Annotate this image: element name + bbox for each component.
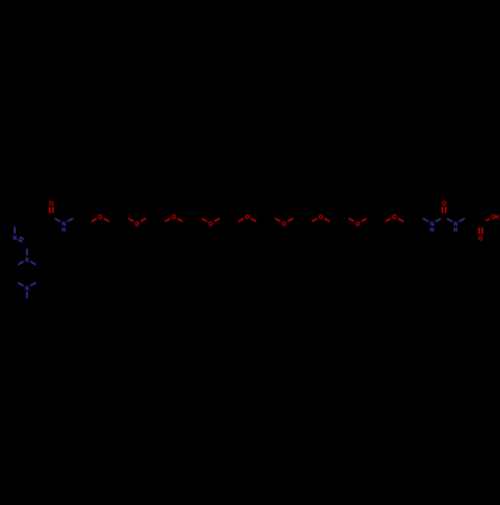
svg-text:OH: OH — [491, 214, 499, 221]
bond N1-C6 half (blue) — [14, 227, 16, 233]
bond Npip2-C5p half — [18, 283, 24, 286]
bond C=O urea double half (red) line a — [441, 207, 443, 213]
svg-text:O: O — [355, 221, 360, 228]
bond C=O amide double half (red) line a — [49, 207, 51, 213]
bond C=O acid double half (red) line b — [478, 227, 480, 234]
bond O2-CH2 right half (red) — [141, 218, 147, 221]
bond O4-CH2 left half (red) — [202, 218, 208, 221]
bond C-OH half (red) — [486, 219, 490, 221]
bond O1-CH2 right half (red) — [104, 218, 110, 221]
bond C=O urea double half (red) line b — [445, 207, 447, 213]
bond O9-CH2 left half (red) — [385, 218, 391, 221]
svg-text:O: O — [49, 200, 54, 207]
bond Npip2-CH3 half (N-methyl) — [26, 292, 28, 298]
svg-text:O: O — [478, 235, 483, 242]
bond CH2-Nu1 half (blue) — [423, 218, 429, 221]
bond C=O amide double half (red) line b — [52, 207, 54, 213]
bond Cam-Nam half (blue) — [55, 219, 61, 222]
bond O1-CH2 left half (red) — [91, 218, 97, 221]
svg-text:O: O — [319, 214, 324, 221]
svg-text:O: O — [135, 221, 140, 228]
bond O2-CH2 left half (red) — [128, 218, 134, 221]
svg-text:O: O — [208, 221, 213, 228]
svg-text:N: N — [13, 235, 17, 242]
svg-text:N: N — [25, 257, 29, 264]
bond O7-CH2 right half (red) — [324, 218, 330, 221]
svg-text:O: O — [282, 221, 287, 228]
bond Curea-Nu2 half (blue) — [447, 219, 452, 222]
bond C=O acid double half (red) line a — [481, 227, 483, 234]
svg-text:O: O — [98, 214, 103, 221]
bond O6-CH2 left half (red) — [275, 218, 281, 221]
bond Npip1-C2p half — [30, 261, 36, 264]
svg-text:O: O — [392, 214, 397, 221]
bond Npip1-C6p half — [18, 261, 24, 264]
svg-text:O: O — [442, 200, 447, 207]
bond O5-CH2 right half (red) — [251, 218, 257, 221]
svg-text:H: H — [62, 227, 66, 234]
bond O8-CH2 right half (red) — [361, 218, 367, 221]
bond C2-Npip1 half (blue, vertical) — [26, 249, 28, 256]
bond O9-CH2 right half (red) — [398, 218, 404, 221]
bond O5-CH2 left half (red) — [238, 218, 244, 221]
bond O7-CH2 left half (red) — [312, 218, 318, 221]
svg-text:N: N — [25, 285, 29, 292]
svg-text:O: O — [245, 214, 250, 221]
svg-text:O: O — [172, 214, 177, 221]
bond Nam-CH2 half (blue) — [67, 218, 73, 221]
bond O3-CH2 left half (red) — [165, 218, 171, 221]
bond Nu2-CH2 half (blue) — [459, 218, 465, 221]
bond N1=C2 double (blue halves) — [18, 239, 22, 241]
bond O4-CH2 right half (red) — [214, 218, 220, 221]
bond O6-CH2 right half (red) — [288, 218, 294, 221]
bond O3-CH2 right half (red) — [177, 218, 183, 221]
svg-text:H: H — [454, 227, 458, 234]
bond Npip2-C3p half — [30, 283, 36, 286]
bond Nu1-Curea half (blue) — [435, 219, 440, 222]
svg-text:H: H — [430, 227, 434, 234]
bond O8-CH2 left half (red) — [349, 218, 355, 221]
